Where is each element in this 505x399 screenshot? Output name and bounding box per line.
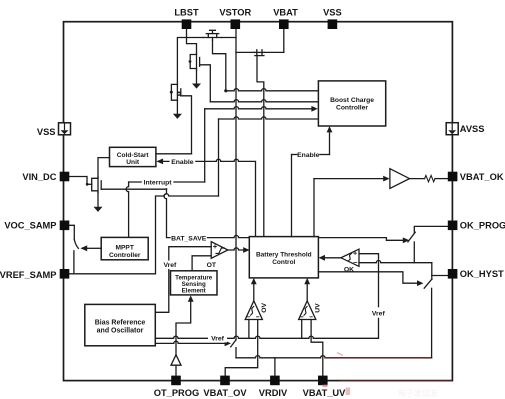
- svg-text:and Oscillator: and Oscillator: [97, 327, 144, 334]
- watermark red tint on line B: [325, 357, 430, 359]
- block: Boost Charge Controller: [318, 81, 385, 126]
- comparator OK: [341, 249, 359, 266]
- svg-text:Enable: Enable: [297, 152, 320, 159]
- pin VSTOR: [231, 19, 241, 29]
- wire: Q5 source line right: [101, 188, 166, 190]
- wire: Q1 gate down to boost line 1: [213, 40, 226, 91]
- wire: VREF_SAMP net to boost line4: [69, 194, 218, 274]
- wire: VBAT pin stub: [283, 26, 285, 52]
- wire: Q2 source down: [196, 70, 198, 84]
- pin VBAT_UV: [318, 376, 328, 386]
- pin VREF_SAMP: [60, 269, 70, 279]
- svg-text:OT_PROG: OT_PROG: [154, 388, 199, 398]
- pin OK_HYST: [448, 269, 458, 279]
- triangle buffer at OT_PROG pin: [171, 355, 181, 376]
- wire: Q4 gate down to battery threshold control: [257, 56, 264, 237]
- ground symbol below Q3: [173, 114, 182, 119]
- wire: Q5 source down: [97, 193, 99, 207]
- wire: UV right input to VBAT_UV pin: [311, 320, 323, 376]
- svg-text:Interrupt: Interrupt: [144, 180, 173, 187]
- wire: MPPT control arrow to switch: [80, 245, 101, 251]
- wire: OK output arrow into battery threshold control: [319, 255, 341, 261]
- comparator OT: [211, 242, 228, 259]
- transistor Q2 NMOS at LBST node: [189, 53, 200, 70]
- wire: line B up to OK_HYST switch: [431, 288, 433, 358]
- wire: VRDIV pin up to line B: [274, 358, 276, 376]
- resistor R1 at VBAT_OK: [410, 175, 448, 181]
- block: Bias Reference and Oscillator: [85, 304, 156, 345]
- svg-text:VRDIV: VRDIV: [259, 388, 288, 398]
- label Vref right vertical: [371, 307, 387, 317]
- label Enable left: [170, 157, 196, 166]
- wire: cold-start output right: [156, 153, 192, 155]
- svg-text:VIN_DC: VIN_DC: [22, 172, 56, 182]
- svg-text:VBAT: VBAT: [273, 7, 298, 17]
- pin LBST: [182, 19, 192, 29]
- wire: OV left input to Vref rail: [248, 320, 250, 339]
- wire: OV output arrow into battery threshold control: [251, 278, 257, 301]
- wire: Q2 to boost line 2: [200, 65, 211, 102]
- comparator UV: [299, 301, 316, 320]
- block: Cold-Start Unit: [110, 147, 156, 166]
- svg-text:Battery Threshold: Battery Threshold: [256, 252, 312, 259]
- svg-text:Control: Control: [272, 259, 295, 266]
- pin VBAT_OK: [448, 172, 458, 182]
- svg-text:VSS: VSS: [323, 7, 342, 17]
- wire: switch node down to line B: [235, 348, 237, 358]
- text Battery Threshold Control: [256, 252, 312, 266]
- label BAT_SAVE: [171, 233, 207, 242]
- svg-text:VBAT_OK: VBAT_OK: [460, 172, 504, 182]
- svg-text:电子发烧友: 电子发烧友: [398, 388, 438, 398]
- svg-text:VOC_SAMP: VOC_SAMP: [4, 220, 56, 230]
- svg-text:VREF_SAMP: VREF_SAMP: [0, 270, 57, 280]
- svg-text:VBAT_OV: VBAT_OV: [203, 388, 247, 398]
- text MPPT Controller: [109, 244, 141, 259]
- wire: LBST pin down and rail to VSTOR: [177, 24, 236, 85]
- pin VOC_SAMP: [60, 221, 70, 231]
- wire: interrupt down to MPPT with hop: [126, 182, 129, 237]
- transistor Q4 PMOS between VSTOR and VBAT: [254, 50, 264, 56]
- wire: bias output to Vref switch with arrow: [155, 341, 231, 347]
- label Vref at OT input: [162, 261, 177, 270]
- ground symbol below Q5: [94, 207, 103, 212]
- wire: OK_HYST pin stub: [432, 275, 448, 277]
- wire: switch to VREF_SAMP node: [73, 251, 75, 274]
- svg-text:MPPT: MPPT: [116, 244, 134, 251]
- ground symbol below Q2: [192, 84, 201, 89]
- wire: VBAT_OV to OV comparator input: [225, 320, 258, 376]
- transistor Q1 rectifier PMOS between LBST and VSTOR: [203, 30, 221, 40]
- svg-text:Vref: Vref: [372, 310, 386, 317]
- wire: boost controller input line 2: [210, 100, 318, 102]
- block: Battery Threshold Control: [249, 237, 318, 278]
- wire: VOC_SAMP to switch: [69, 225, 74, 239]
- svg-text:UV: UV: [314, 303, 321, 313]
- svg-text:Unit: Unit: [126, 159, 140, 166]
- wire: Q3 drain wire to cold-start: [181, 96, 192, 154]
- svg-text:Element: Element: [182, 288, 206, 295]
- svg-text:OK_PROG: OK_PROG: [460, 220, 505, 230]
- label Interrupt: [142, 178, 174, 187]
- wire: boost controller input line 3 with arrow (enable): [205, 106, 318, 112]
- comparator OV: [245, 301, 262, 320]
- svg-text:BAT_SAVE: BAT_SAVE: [171, 235, 207, 242]
- svg-text:Cold-Start: Cold-Start: [117, 152, 150, 159]
- svg-text:Enable: Enable: [171, 159, 194, 166]
- pin VIN_DC: [60, 172, 70, 182]
- pin VSS top: [328, 19, 338, 29]
- wire: BT control to OK_HYST switch arrow: [318, 272, 423, 286]
- wire: OK minus input line: [359, 261, 432, 263]
- wire: OT minus input from temperature element: [192, 256, 211, 271]
- switch: Vref to divider: [231, 340, 236, 347]
- svg-text:VSTOR: VSTOR: [219, 7, 251, 17]
- wire: OT output arrow into battery threshold control: [228, 247, 250, 253]
- wire: OK_HYST node vertical: [431, 263, 433, 280]
- svg-text:OK: OK: [344, 267, 354, 274]
- watermark red tint on bottom border: [340, 380, 452, 382]
- arrow into OK_PROG switch: [403, 237, 410, 243]
- wire: Vref rail from bias to OK comparator: [155, 254, 378, 339]
- svg-text:Bias Reference: Bias Reference: [95, 319, 146, 326]
- wire: OT_PROG up to temperature element arrow: [176, 295, 194, 354]
- pin AVSS symbol: [446, 123, 458, 135]
- wire: Q3 source down: [176, 100, 178, 114]
- wire: Q5 drain up to cold-start: [98, 158, 110, 177]
- wire: enable line into cold-start: [156, 159, 255, 237]
- wire: interrupt line: [129, 181, 205, 183]
- svg-text:OV: OV: [261, 303, 268, 313]
- svg-text:OT: OT: [207, 262, 217, 269]
- svg-text:Vref: Vref: [163, 262, 177, 269]
- svg-text:Controller: Controller: [109, 252, 141, 259]
- pin VSS left symbol: [59, 123, 71, 135]
- wire: OT plus input from Vref: [155, 247, 211, 313]
- text Boost Charge Controller: [330, 97, 374, 111]
- watermark red mark near VBAT_UV: [346, 388, 351, 396]
- svg-text:VBAT_UV: VBAT_UV: [303, 388, 347, 398]
- svg-text:OK_HYST: OK_HYST: [460, 269, 504, 279]
- block: MPPT Controller: [101, 237, 148, 259]
- node: junction dot at line1 corner: [224, 89, 227, 92]
- transistor Q3 low-side NMOS: [170, 84, 181, 100]
- text Cold-Start Unit: [117, 152, 150, 166]
- text Bias Reference and Oscillator: [95, 319, 146, 334]
- switch: OK_HYST: [424, 279, 432, 288]
- wire: line3 vertical down to enable/interrupt: [204, 109, 206, 182]
- switch: VOC sample select: [74, 240, 78, 249]
- wire: Q4 left lead to VSTOR bus: [236, 51, 254, 53]
- svg-text:AVSS: AVSS: [460, 124, 485, 134]
- wire: BAT_SAVE net: [164, 189, 403, 241]
- switch: OK_PROG: [408, 232, 415, 242]
- wire: OK_PROG pin to switch: [414, 226, 447, 232]
- wire: VIN_DC to Q5 gate: [68, 177, 87, 185]
- block: Temperature Sensing Element: [171, 271, 218, 295]
- wire: line 4 vertical to VREF_SAMP net: [218, 119, 220, 196]
- svg-text:Vref: Vref: [211, 336, 225, 343]
- wire: boost controller input line 1: [226, 89, 319, 91]
- svg-text:Controller: Controller: [336, 104, 368, 111]
- text Temperature Sensing Element: [175, 275, 213, 295]
- label Vref mid rail: [208, 334, 227, 343]
- svg-text:Boost Charge: Boost Charge: [330, 97, 374, 104]
- wire: Q4 right lead to VBAT: [265, 51, 284, 53]
- pin OT_PROG: [171, 376, 181, 386]
- pin VBAT: [279, 19, 289, 29]
- label Enable right: [297, 150, 320, 159]
- svg-text:VSS: VSS: [37, 127, 56, 137]
- wire: OK_PROG switch down to OK minus: [413, 242, 415, 263]
- pin VBAT_OV: [220, 376, 230, 386]
- pin VRDIV: [270, 376, 280, 386]
- svg-text:LBST: LBST: [174, 7, 199, 17]
- wire: buffer input from battery threshold control: [314, 176, 390, 237]
- wire: boost enable label net: [292, 126, 333, 237]
- IC outer border: [64, 22, 453, 381]
- wire: Q2 drain to LBST: [187, 38, 197, 54]
- pin OK_PROG: [448, 221, 458, 231]
- wire: VSTOR bus vertical: [235, 26, 237, 340]
- watermark small red arrow on line B left: [337, 353, 343, 356]
- buffer amplifier for VBAT_OK: [390, 169, 410, 189]
- node: dot at Q5 gate: [86, 183, 89, 186]
- transistor Q5 cold-start input NMOS: [87, 177, 101, 193]
- wire: line B across bottom: [236, 356, 432, 358]
- wire: UV left input to Vref rail: [301, 320, 303, 339]
- wire: UV output arrow into battery threshold control: [304, 278, 310, 301]
- wire: boost controller input line 4: [219, 117, 319, 119]
